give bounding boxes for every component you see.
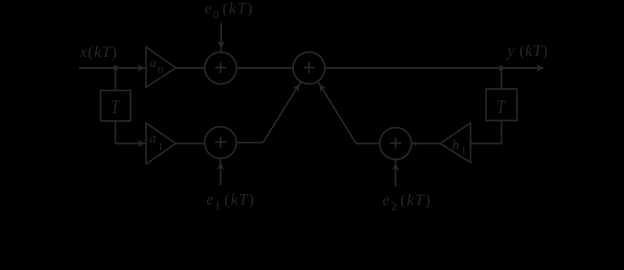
svg-text:T: T (111, 97, 120, 118)
svg-text:y (kT): y (kT) (505, 43, 548, 60)
svg-text:T: T (497, 97, 506, 118)
svg-text:x(kT): x(kT) (79, 44, 118, 61)
